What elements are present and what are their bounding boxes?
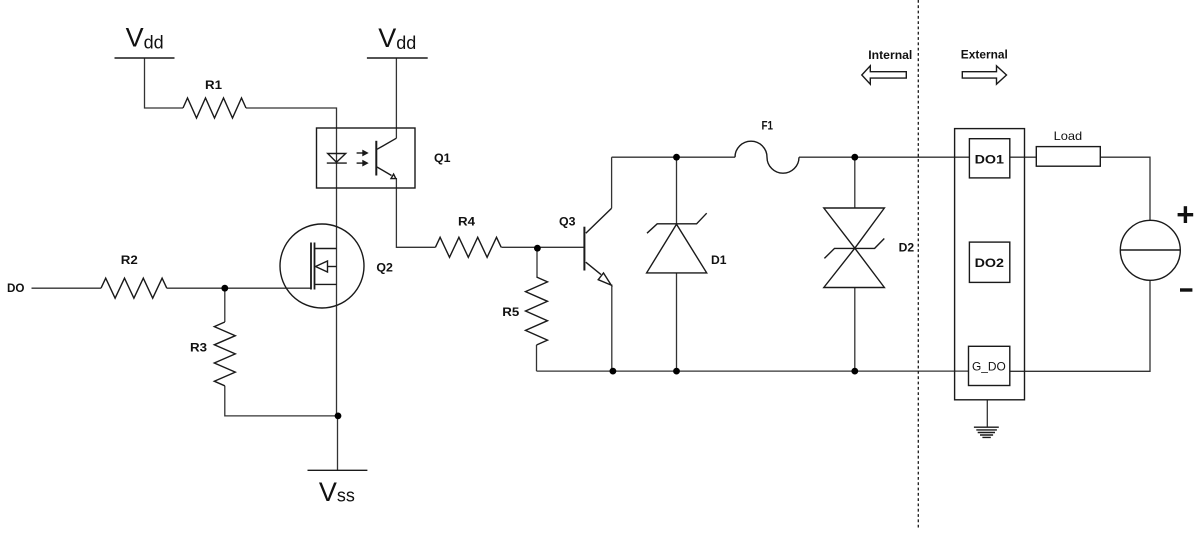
svg-text:F1: F1 [762, 119, 774, 133]
svg-text:External: External [961, 48, 1008, 62]
svg-text:R2: R2 [121, 253, 138, 267]
svg-text:Q2: Q2 [376, 261, 393, 275]
svg-text:Q3: Q3 [559, 215, 576, 229]
svg-text:Vdd: Vdd [126, 23, 164, 53]
svg-text:Load: Load [1054, 129, 1083, 143]
svg-text:Vss: Vss [319, 477, 355, 507]
svg-text:Vdd: Vdd [378, 23, 416, 53]
svg-text:D2: D2 [899, 241, 915, 255]
svg-text:D1: D1 [711, 253, 727, 267]
svg-text:Q1: Q1 [434, 151, 451, 165]
svg-text:R1: R1 [205, 78, 222, 92]
svg-text:DO: DO [7, 281, 25, 295]
svg-text:DO2: DO2 [975, 256, 1005, 270]
svg-text:Internal: Internal [868, 48, 912, 62]
svg-text:R5: R5 [502, 305, 519, 319]
svg-text:G_DO: G_DO [972, 360, 1006, 374]
svg-text:R4: R4 [458, 215, 475, 229]
svg-text:DO1: DO1 [975, 152, 1005, 166]
svg-text:R3: R3 [190, 341, 207, 355]
